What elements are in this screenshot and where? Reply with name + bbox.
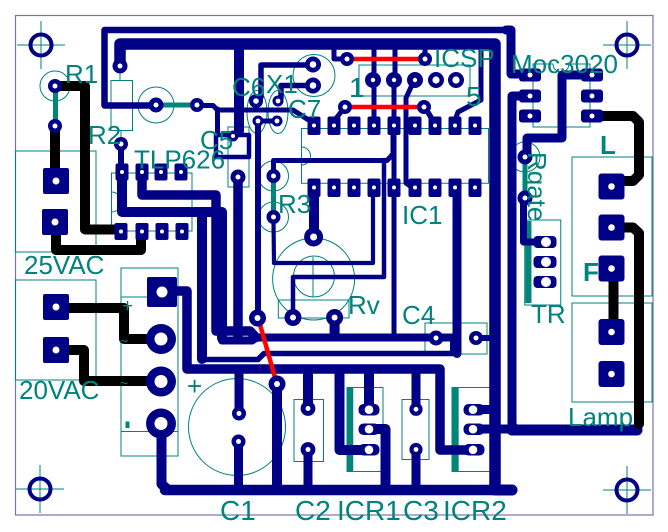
svg-text:Lamp: Lamp [568, 402, 633, 432]
pad TR.2 [534, 256, 557, 268]
IC1 outline [302, 129, 489, 184]
wire top bar to ICSP2 [393, 49, 398, 75]
svg-text:IC1: IC1 [402, 200, 442, 230]
wire ICR1 pin3 to bridge [340, 372, 370, 450]
wire ground bus bottom [165, 485, 512, 496]
wire IC pin1 to Rv wiper [309, 192, 319, 232]
wire from pad to bus left [162, 435, 168, 489]
pad Rv.wiper [304, 228, 323, 247]
potentiometer Rv outline [273, 238, 355, 320]
mounting hole bottom-right [603, 466, 651, 514]
svg-text:~: ~ [120, 333, 128, 349]
pad C1.2 [232, 435, 246, 449]
wire red ICSP2 [350, 105, 419, 110]
pad Rv.1 [285, 309, 302, 326]
wire 25VAC-2 to TLP pin black [56, 234, 141, 250]
wire L pad2 to lamp corner black [624, 228, 639, 425]
pad red1 left [340, 52, 354, 66]
connector 20VAC outline [16, 280, 97, 380]
wire TLP pin1 elbow [122, 177, 222, 338]
svg-text:C5: C5 [200, 125, 233, 155]
pad ICR2.1 [464, 404, 485, 416]
svg-text:R2: R2 [88, 120, 121, 150]
resistor R1 circle [40, 71, 70, 101]
svg-text:25VAC: 25VAC [24, 250, 104, 280]
capacitor C5 outline [228, 127, 249, 187]
pad R1.1 [48, 79, 62, 93]
pad ICSP.4 [428, 72, 444, 88]
wire C1 pad2 to bus [234, 447, 243, 489]
svg-text:TR: TR [531, 299, 566, 329]
pad C2.1 [301, 401, 316, 416]
fuse F outline [572, 157, 652, 296]
resistor Rgate link [523, 161, 528, 194]
wire ICSP1 up [372, 50, 377, 72]
pad TLP.4 [175, 164, 188, 181]
pad TLP.7 [136, 223, 149, 240]
pad ICR2.3 [464, 444, 485, 456]
resistor R3 link [271, 180, 276, 213]
pad C3.1 [409, 403, 422, 416]
relay ICR1 link [347, 388, 354, 471]
pad TLP.8 [115, 223, 128, 240]
wire red ICSP1 [352, 57, 420, 62]
pad 25VAC.1 [43, 168, 69, 194]
label minus tick [126, 422, 130, 429]
wire C6 down to red pad [255, 126, 262, 318]
capacitor C2 outline [294, 400, 324, 462]
wire red1 left elbow [334, 49, 347, 59]
wire C3 pad1 to bridge [412, 372, 421, 405]
pad TR.1 [534, 236, 557, 248]
wire net N1 top thin [105, 30, 507, 106]
pad L.2 [599, 215, 625, 241]
svg-text:5: 5 [466, 81, 482, 112]
pad C1.1 [232, 407, 246, 421]
wire R1 pad2 to 25VAC black [50, 126, 60, 181]
mounting hole top-right [603, 21, 651, 69]
wire ICSP1 to IC1 pin4 [372, 88, 377, 122]
pad TLP.1 [116, 164, 129, 181]
resistor R1 link [53, 87, 58, 125]
pad 25VAC.2 [42, 209, 68, 235]
green layer links [56, 87, 529, 471]
svg-text:+: + [122, 296, 133, 317]
capacitor C1 outline [189, 379, 286, 476]
resistor R3 circles [259, 161, 289, 191]
wire 20VAC-1 to plus black [56, 308, 150, 339]
relay ICR2 outline [452, 388, 493, 472]
resistor Rgate circle [510, 142, 540, 172]
navy traces [105, 30, 638, 490]
svg-text:1: 1 [349, 72, 365, 103]
wire ICSP2 down [392, 85, 397, 125]
svg-text:+: + [187, 371, 202, 401]
svg-text:Moc3020: Moc3020 [511, 49, 618, 79]
wire R3 bottom loop [274, 190, 374, 263]
svg-text:ICR2: ICR2 [443, 495, 507, 526]
wire C1 pad1 to bridge [235, 372, 244, 408]
mounting hole top-left [17, 21, 65, 69]
wire top bar to C5 [234, 49, 244, 131]
wire Rgate pad2 to TR pin1 [524, 202, 539, 242]
pad C2.2 [301, 442, 316, 457]
pad PWR.4 [146, 409, 176, 439]
jumper circle [138, 87, 174, 123]
wire N1 elbow to Moc pin1 [506, 30, 524, 74]
pad jumper.1 [149, 98, 164, 113]
pad ICSP.5 [448, 72, 464, 88]
relay ICR2 link [452, 388, 459, 471]
svg-text:C6: C6 [232, 72, 265, 102]
pad Moc.3 [519, 110, 541, 123]
wire lower bus right riser [453, 192, 462, 354]
svg-text:C1: C1 [220, 495, 256, 526]
wire C4 right stub [476, 335, 497, 341]
pad ICR1.3 [359, 444, 380, 456]
pad PWR.3 [146, 367, 176, 397]
pad ICR1.2 [359, 424, 380, 436]
wire ICR1 pin2 to bus [369, 429, 386, 489]
pad C7.2 [272, 116, 283, 127]
pad red2 left [338, 100, 352, 114]
wire ICSP3 diagonal [406, 85, 414, 189]
wire C2 pad2 to bus [304, 453, 313, 489]
wire 20VAC-2 black [56, 350, 150, 381]
pad ICR1.1 [359, 404, 380, 416]
svg-text:~: ~ [120, 375, 128, 391]
pad TLP.2 [136, 164, 149, 181]
wire lower bus [202, 354, 457, 360]
wire net N2 top thick [120, 44, 495, 487]
svg-text:Rgate: Rgate [522, 152, 552, 221]
silkscreen outlines (teal thin) [16, 55, 653, 476]
triac TR gate link [525, 221, 531, 303]
pad red2 right [417, 100, 431, 114]
pad C3.2 [409, 443, 422, 456]
crystal X1 outline [293, 55, 335, 97]
pad R2.2 [114, 137, 128, 151]
wire R3 top to IC [274, 131, 394, 172]
pad 20VAC.1 [43, 294, 69, 320]
pad F.2 [599, 319, 625, 345]
pad X1.2 [305, 78, 321, 94]
pad TLP.3 [155, 164, 168, 181]
wire C3 pad2 to bus [412, 453, 421, 489]
pad C6.1 [249, 94, 263, 108]
capacitor C3 outline [402, 400, 429, 460]
black traces [55, 86, 639, 424]
wire C6 C7 bottom link [258, 119, 277, 124]
pad R2.1 [113, 59, 128, 74]
pad Lamp.1 [599, 361, 625, 387]
pad C5.1 [228, 131, 239, 142]
red top-layer traces [259, 59, 420, 381]
pad IC1 top row [308, 117, 321, 136]
connector 25VAC outline [16, 151, 97, 252]
wire red Rv [259, 321, 276, 381]
wire red1 right stub [423, 48, 428, 59]
pad R1.2 [48, 119, 62, 133]
svg-text:R3: R3 [278, 189, 311, 219]
pad PWR.2 [146, 324, 176, 354]
pad Rgate.1 [518, 150, 533, 165]
svg-text:R1: R1 [65, 59, 98, 89]
wire ICR2 pin1 to right rail [474, 405, 495, 414]
pad R3.1 [267, 169, 281, 183]
pad jumper.2 [190, 98, 204, 112]
wire jumper to red pad [197, 106, 314, 124]
capacitor C7 outline [268, 91, 288, 134]
pad C6.2 [253, 116, 264, 127]
wire ICSP pad2 to bus [392, 190, 397, 336]
wire C5 pad to upper bus [233, 182, 243, 337]
pad TLP.5 [176, 223, 189, 240]
pad R3.2 [267, 210, 281, 224]
wire jumper corner to C5 [215, 109, 220, 135]
wire X1 bottom link [278, 86, 313, 102]
wire upper bus [222, 338, 454, 352]
wire red2 left pad to IC1 pin2 [334, 107, 345, 121]
svg-text:C4: C4 [402, 300, 435, 330]
pad red3 bottom [269, 376, 286, 393]
pad red1 right [418, 52, 432, 66]
wire fuse link black [609, 280, 619, 325]
wire TLP pin2 elbow [142, 177, 256, 338]
optocoupler TLP626 outline [112, 173, 193, 231]
svg-text:ICSP: ICSP [434, 43, 495, 73]
header ICSP outline [359, 65, 470, 96]
wire top bar branch to IC1 pin [455, 47, 481, 120]
wire Moc left pin2 to lamp line [512, 96, 637, 430]
wire R1 to TLP pin5 black [55, 86, 121, 232]
wire PWR plus to bridge over relays [170, 291, 468, 450]
svg-text:ICR1: ICR1 [337, 495, 401, 526]
pads [42, 52, 625, 457]
opto-triac Moc3020 outline [533, 64, 590, 127]
mounting hole bottom-left [16, 465, 64, 513]
pad C4.1 [429, 331, 444, 346]
wire R2 to TLP pin [118, 146, 124, 172]
pad Rgate.2 [518, 191, 533, 206]
wire Moc pin4 to L pad1 black [592, 116, 639, 181]
capacitor C6 outline [247, 91, 267, 134]
wire IC pin to Rv1 [293, 160, 384, 313]
wire bridge leg to ICR1 pin1 [364, 372, 374, 405]
pad L.1 [599, 174, 625, 200]
pad C7.1 [273, 96, 284, 107]
svg-text:F: F [583, 257, 599, 287]
pad Moc.1 [519, 69, 541, 82]
pad ICSP.1 [365, 72, 381, 88]
pad Moc.5 [581, 90, 603, 103]
svg-text:C3: C3 [403, 495, 439, 526]
pad C4.2 [469, 331, 483, 345]
svg-text:L: L [600, 130, 616, 160]
wire IC pin mid [392, 131, 397, 185]
triac TR outline [525, 220, 561, 305]
pad IC1 bottom row [308, 179, 321, 198]
pad F.1 [599, 256, 625, 282]
pad 20VAC.2 [43, 337, 69, 363]
power connector outline [121, 268, 178, 456]
pad PWR.1 [147, 277, 177, 307]
lamp connector outline [572, 303, 652, 402]
pad TR.3 [534, 276, 557, 288]
relay ICR1 outline [347, 388, 383, 472]
capacitor C4 outline [425, 323, 487, 354]
wire ICR2 pin2 to right rail [474, 425, 512, 434]
pad C5.2 [231, 170, 246, 185]
svg-text:20VAC: 20VAC [19, 375, 99, 405]
wire C6 top link [257, 65, 313, 101]
wire red2 right to IC pin [426, 109, 435, 124]
svg-text:C7: C7 [288, 94, 321, 124]
wire Moc right pin1 to Rgate [527, 75, 592, 155]
wire red3 pad to bus [272, 389, 282, 489]
pad drill holes [52, 57, 615, 455]
pad Rv.2 [326, 309, 343, 326]
wire lamp horizontal thick [512, 425, 637, 436]
pad red3 top [249, 310, 266, 327]
pad Moc.2 [519, 90, 541, 103]
pad Moc.4 [581, 110, 603, 123]
resistor R2 body [111, 81, 133, 131]
pad Moc.6 [581, 69, 603, 82]
jumper link [156, 103, 196, 108]
pad ICSP.2 [386, 72, 402, 88]
pad X1.1 [305, 57, 321, 73]
svg-text:Rv: Rv [348, 290, 380, 320]
wire bus stub right [495, 485, 512, 496]
wire Rv2 to bus [330, 320, 340, 334]
pad ICSP.3 [407, 72, 423, 88]
wire C5 loop [216, 135, 249, 157]
pad ICR2.2 [464, 424, 485, 436]
wire branch to lower bus [197, 212, 207, 359]
pad TLP.6 [156, 223, 169, 240]
wire C2 pad1 to bridge [303, 372, 313, 404]
svg-text:C2: C2 [295, 495, 331, 526]
